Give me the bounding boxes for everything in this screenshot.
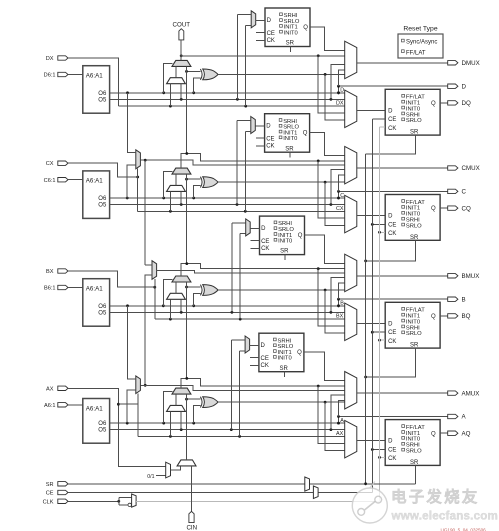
svg-text:CE: CE [388, 222, 396, 228]
svg-text:B: B [340, 301, 344, 307]
svg-text:C6:1: C6:1 [44, 178, 56, 184]
svg-text:CK: CK [388, 126, 396, 132]
svg-text:AMUX: AMUX [462, 390, 480, 397]
svg-text:D: D [266, 124, 271, 130]
svg-text:INIT0: INIT0 [278, 356, 292, 362]
svg-text:CMUX: CMUX [462, 165, 480, 172]
svg-text:D6:1: D6:1 [44, 73, 56, 79]
svg-text:INIT0: INIT0 [278, 239, 292, 245]
svg-text:C: C [462, 189, 467, 196]
svg-text:SR: SR [280, 366, 289, 372]
svg-text:Q: Q [303, 131, 308, 137]
svg-text:BQ: BQ [462, 313, 471, 320]
svg-text:CLK: CLK [43, 500, 54, 506]
svg-text:SR: SR [410, 460, 419, 466]
svg-text:BMUX: BMUX [462, 273, 480, 280]
svg-text:CQ: CQ [462, 205, 471, 212]
svg-text:Q: Q [431, 206, 436, 212]
svg-text:A6:1: A6:1 [44, 403, 56, 409]
svg-text:CE: CE [261, 239, 269, 245]
svg-text:D: D [267, 18, 272, 24]
svg-text:INIT0: INIT0 [283, 136, 297, 142]
svg-text:O5: O5 [98, 428, 107, 434]
svg-text:SR: SR [285, 146, 294, 152]
svg-text:Q: Q [431, 101, 436, 107]
svg-text:UG190_5_04_032506: UG190_5_04_032506 [441, 528, 487, 531]
svg-text:A6:A1: A6:A1 [86, 286, 103, 293]
svg-text:SR: SR [410, 343, 419, 349]
svg-text:CK: CK [261, 246, 269, 252]
svg-text:INIT0: INIT0 [284, 31, 298, 37]
svg-text:D: D [388, 321, 393, 327]
svg-text:B6:1: B6:1 [44, 286, 56, 292]
svg-text:SR: SR [286, 41, 295, 47]
svg-text:CE: CE [266, 137, 274, 143]
svg-text:CK: CK [388, 339, 396, 345]
svg-text:DQ: DQ [462, 100, 471, 107]
svg-text:电子发烧友: 电子发烧友 [391, 487, 480, 506]
svg-text:D: D [462, 83, 467, 90]
svg-text:SRLO: SRLO [406, 449, 422, 455]
svg-text:O6: O6 [98, 304, 107, 310]
svg-text:SRLO: SRLO [406, 118, 422, 124]
svg-text:D: D [261, 226, 266, 232]
svg-text:0/1: 0/1 [147, 474, 154, 480]
svg-text:CE: CE [267, 31, 275, 37]
svg-text:SR: SR [280, 249, 289, 255]
svg-text:AX: AX [336, 431, 344, 437]
svg-text:CE: CE [261, 356, 269, 362]
svg-text:O5: O5 [98, 97, 107, 103]
svg-text:CE: CE [46, 491, 54, 497]
svg-text:BX: BX [336, 314, 344, 320]
svg-text:D: D [388, 214, 393, 220]
svg-text:D: D [261, 343, 266, 349]
svg-text:Sync/Async: Sync/Async [406, 40, 437, 46]
svg-text:Q: Q [297, 350, 302, 356]
svg-text:O6: O6 [98, 421, 107, 427]
svg-text:CK: CK [266, 144, 274, 150]
svg-text:CE: CE [388, 117, 396, 123]
svg-text:CE: CE [388, 330, 396, 336]
svg-text:FF/LAT: FF/LAT [406, 50, 426, 56]
svg-text:A6:A1: A6:A1 [86, 178, 103, 185]
svg-text:BX: BX [46, 269, 54, 275]
svg-text:COUT: COUT [173, 21, 191, 28]
svg-text:CX: CX [46, 161, 54, 167]
svg-text:AX: AX [46, 386, 54, 392]
svg-text:SR: SR [410, 235, 419, 241]
svg-text:D: D [340, 88, 344, 94]
svg-text:CE: CE [388, 447, 396, 453]
svg-text:SR: SR [46, 482, 54, 488]
svg-text:O6: O6 [98, 91, 107, 97]
svg-text:CK: CK [388, 231, 396, 237]
svg-text:SRLO: SRLO [406, 223, 422, 229]
svg-text:C: C [340, 193, 344, 199]
svg-text:CK: CK [267, 38, 275, 44]
svg-text:CK: CK [261, 363, 269, 369]
svg-text:DX: DX [336, 101, 344, 107]
svg-text:CIN: CIN [186, 524, 197, 531]
svg-text:DMUX: DMUX [462, 60, 480, 67]
svg-text:CK: CK [388, 456, 396, 462]
svg-text:B: B [462, 296, 466, 303]
svg-text:www.elecfans.com: www.elecfans.com [391, 510, 499, 523]
svg-text:DX: DX [46, 56, 54, 62]
svg-text:CX: CX [336, 206, 344, 212]
svg-text:Q: Q [431, 431, 436, 437]
svg-text:D: D [388, 439, 393, 445]
svg-text:Q: Q [303, 25, 308, 31]
svg-text:SRLO: SRLO [406, 331, 422, 337]
svg-text:O5: O5 [98, 203, 107, 209]
svg-text:Q: Q [431, 314, 436, 320]
svg-text:A6:A1: A6:A1 [86, 73, 103, 80]
svg-text:A: A [340, 418, 344, 424]
svg-text:Q: Q [298, 233, 303, 239]
svg-text:A6:A1: A6:A1 [86, 405, 103, 412]
svg-text:SR: SR [410, 130, 419, 136]
svg-text:D: D [388, 108, 393, 114]
svg-text:O5: O5 [98, 310, 107, 316]
svg-text:AQ: AQ [462, 430, 471, 437]
svg-text:Reset Type: Reset Type [403, 26, 437, 33]
svg-text:O6: O6 [98, 196, 107, 202]
